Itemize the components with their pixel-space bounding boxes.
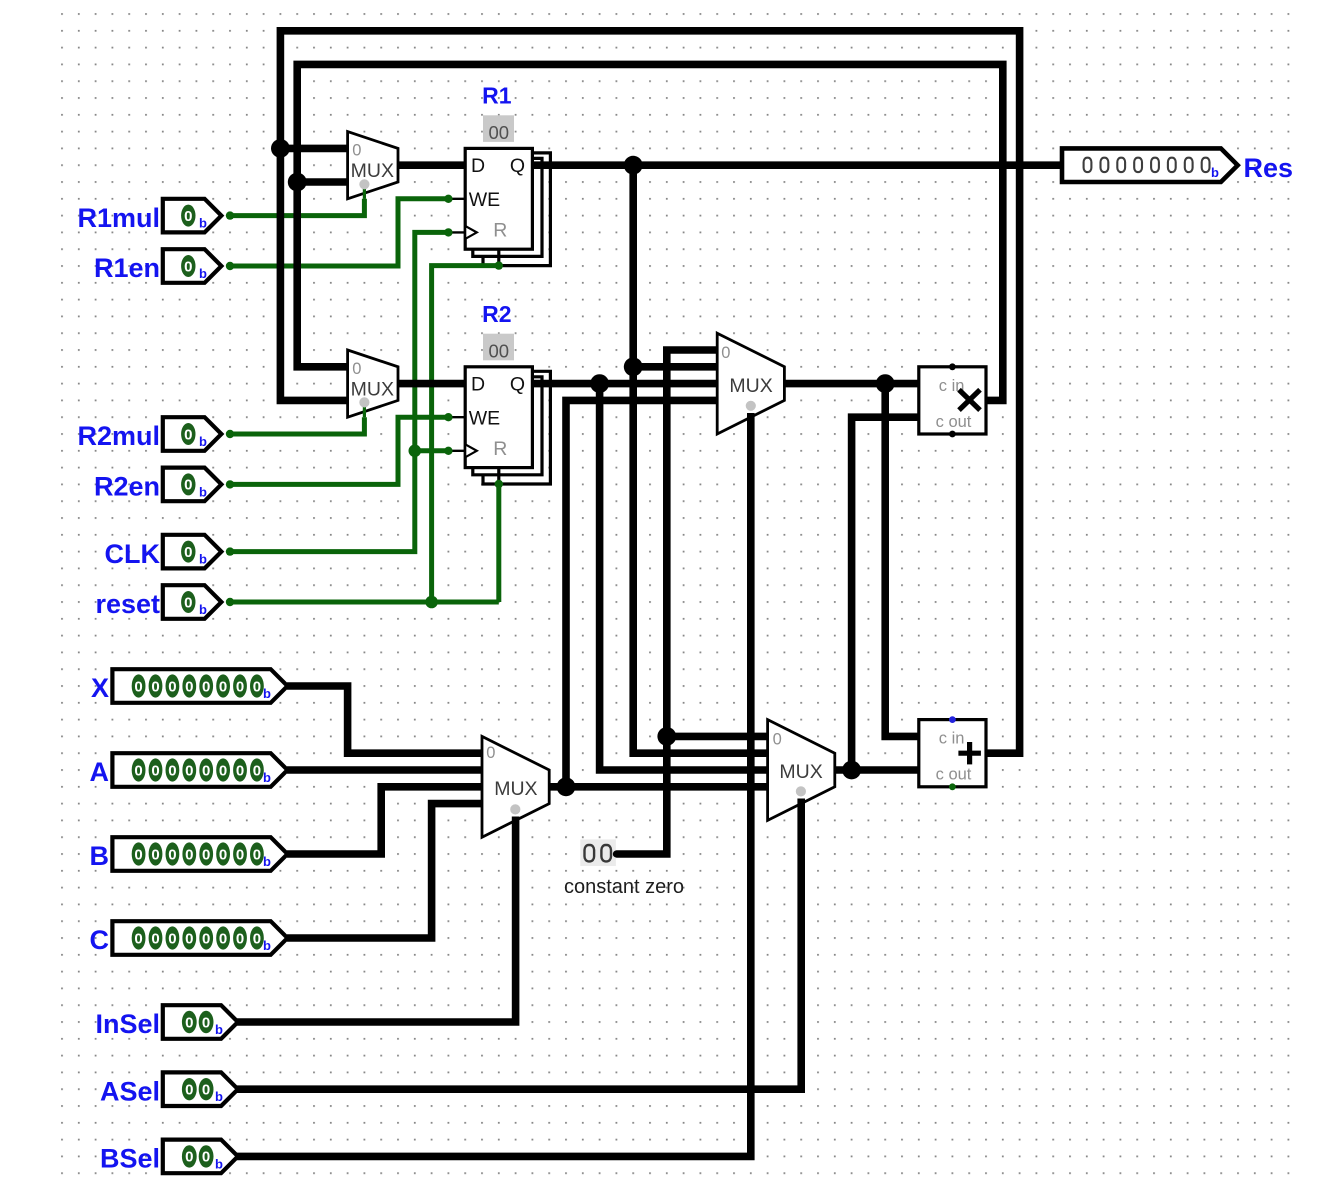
- svg-text:ASel: ASel: [100, 1076, 160, 1106]
- svg-text:0: 0: [151, 846, 159, 863]
- svg-text:c out: c out: [936, 413, 972, 431]
- svg-text:0: 0: [721, 344, 730, 362]
- svg-text:0: 0: [185, 1014, 193, 1031]
- svg-text:constant zero: constant zero: [564, 876, 684, 898]
- svg-text:0: 0: [236, 930, 244, 947]
- svg-text:b: b: [263, 938, 271, 953]
- svg-text:R2en: R2en: [94, 472, 160, 502]
- svg-text:0: 0: [202, 762, 210, 779]
- svg-text:c out: c out: [936, 766, 972, 784]
- svg-text:R1en: R1en: [94, 253, 160, 283]
- svg-text:b: b: [199, 552, 207, 567]
- svg-text:0: 0: [202, 1014, 210, 1031]
- svg-text:0: 0: [151, 930, 159, 947]
- svg-text:0: 0: [202, 930, 210, 947]
- svg-text:MUX: MUX: [494, 778, 537, 800]
- svg-text:00: 00: [489, 341, 510, 362]
- svg-text:MUX: MUX: [351, 160, 394, 182]
- svg-text:b: b: [215, 1156, 223, 1171]
- svg-text:R2mul: R2mul: [77, 421, 160, 451]
- svg-text:R: R: [493, 220, 507, 242]
- svg-text:WE: WE: [469, 189, 500, 211]
- svg-text:0: 0: [168, 762, 176, 779]
- svg-text:b: b: [1211, 165, 1219, 180]
- svg-text:0: 0: [352, 360, 361, 378]
- svg-text:00: 00: [489, 122, 510, 143]
- svg-text:0: 0: [486, 744, 495, 762]
- svg-text:R2: R2: [482, 301, 511, 327]
- svg-text:b: b: [199, 484, 207, 499]
- svg-text:A: A: [90, 757, 110, 787]
- svg-text:0: 0: [253, 930, 261, 947]
- svg-text:0: 0: [184, 426, 192, 443]
- svg-text:0: 0: [185, 1149, 193, 1166]
- svg-text:b: b: [263, 854, 271, 869]
- svg-text:0: 0: [134, 930, 142, 947]
- svg-text:reset: reset: [95, 589, 160, 619]
- svg-text:R: R: [493, 438, 507, 460]
- svg-text:B: B: [90, 841, 110, 871]
- svg-text:0: 0: [219, 762, 227, 779]
- svg-text:0: 0: [219, 930, 227, 947]
- svg-text:0: 0: [184, 594, 192, 611]
- svg-text:0: 0: [185, 930, 193, 947]
- svg-text:c in: c in: [939, 730, 965, 748]
- svg-text:Res: Res: [1244, 153, 1294, 183]
- svg-text:R1: R1: [482, 83, 512, 109]
- svg-text:0: 0: [184, 258, 192, 275]
- svg-text:0: 0: [134, 846, 142, 863]
- svg-text:0: 0: [168, 678, 176, 695]
- svg-text:D: D: [471, 155, 485, 177]
- svg-text:0: 0: [134, 678, 142, 695]
- svg-text:b: b: [215, 1022, 223, 1037]
- svg-text:D: D: [471, 374, 485, 396]
- svg-text:0: 0: [236, 762, 244, 779]
- svg-text:0: 0: [202, 1149, 210, 1166]
- svg-text:0: 0: [151, 678, 159, 695]
- svg-text:MUX: MUX: [351, 378, 394, 400]
- svg-text:0: 0: [219, 678, 227, 695]
- svg-text:CLK: CLK: [105, 539, 161, 569]
- svg-text:0: 0: [219, 846, 227, 863]
- svg-text:0: 0: [185, 678, 193, 695]
- svg-text:WE: WE: [469, 407, 500, 429]
- svg-text:R1mul: R1mul: [77, 203, 160, 233]
- svg-text:0: 0: [253, 762, 261, 779]
- svg-text:b: b: [215, 1089, 223, 1104]
- svg-text:0: 0: [236, 678, 244, 695]
- svg-text:0: 0: [236, 846, 244, 863]
- svg-text:0: 0: [253, 846, 261, 863]
- svg-text:0: 0: [184, 544, 192, 561]
- svg-text:Q: Q: [510, 374, 525, 396]
- svg-text:BSel: BSel: [100, 1144, 160, 1174]
- svg-text:MUX: MUX: [729, 375, 772, 397]
- svg-text:0: 0: [168, 846, 176, 863]
- svg-text:0: 0: [202, 846, 210, 863]
- svg-text:MUX: MUX: [779, 761, 822, 783]
- svg-text:InSel: InSel: [95, 1009, 160, 1039]
- svg-text:0: 0: [185, 762, 193, 779]
- svg-text:b: b: [199, 434, 207, 449]
- svg-text:b: b: [199, 602, 207, 617]
- svg-text:0: 0: [202, 678, 210, 695]
- svg-text:0: 0: [168, 930, 176, 947]
- svg-text:b: b: [199, 266, 207, 281]
- svg-text:0: 0: [184, 208, 192, 225]
- svg-text:b: b: [199, 216, 207, 231]
- svg-text:0: 0: [185, 1082, 193, 1099]
- svg-text:b: b: [263, 770, 271, 785]
- svg-text:0: 0: [151, 762, 159, 779]
- svg-text:0: 0: [184, 477, 192, 494]
- svg-text:b: b: [263, 686, 271, 701]
- svg-text:Q: Q: [510, 155, 525, 177]
- svg-text:0: 0: [253, 678, 261, 695]
- svg-text:0: 0: [352, 142, 361, 160]
- svg-text:C: C: [90, 925, 110, 955]
- svg-text:0: 0: [185, 846, 193, 863]
- svg-text:0: 0: [773, 731, 782, 749]
- svg-text:0: 0: [134, 762, 142, 779]
- svg-text:X: X: [91, 673, 109, 703]
- svg-text:0: 0: [202, 1082, 210, 1099]
